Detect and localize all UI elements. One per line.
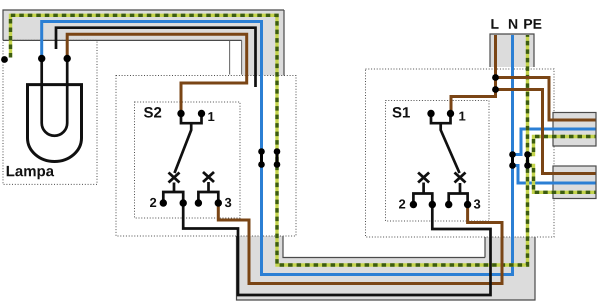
lamp label Lampa [7,166,54,179]
supply label N [509,19,517,29]
socket stub channel 1 right side [553,113,596,147]
S1 terminal label 3 [474,199,481,208]
lamp bulb outline [28,85,82,162]
switch S2 label [144,107,161,118]
switch box S2 outer dashed outline [116,76,296,237]
wire traveller black: S2 terminal 2 to S1 terminal 2 [183,203,490,295]
wire switched live brown: S2 terminal 1 to lamp [67,34,247,113]
wire L brown branch to stub1 [496,78,596,121]
PE termination dot on lamp box [1,56,8,63]
wire spare black in top channel [56,28,256,87]
lamp box dashed outline [3,40,97,184]
terminal block on N wire in S1 area [509,151,516,169]
junction dots on L wire [492,74,499,93]
switch S2 symbol [160,110,222,207]
S1 terminal label 1 [459,112,465,121]
wire PE branch to stub2 [528,166,596,193]
S2 terminal label 2 [150,198,156,207]
terminal block on N wire in S2 area [258,148,265,168]
wire L brown branch to stub2 [496,90,596,174]
wire N blue branch to stub1 [513,129,596,155]
conduit: L N PE supply channel top right [490,34,534,67]
lamp terminal node dots [38,55,71,62]
switch box S1 outer dashed outline [366,69,555,237]
wire traveller brown: S2 terminal 3 to S1 terminal 3 [218,203,502,284]
conduit: top horizontal channel [3,10,284,41]
switch S1 label [392,107,410,118]
socket stub channel 2 right side [553,166,596,199]
conduit: drop channel above S2 box [230,10,284,76]
supply label PE [524,19,541,29]
wire PE green-yellow: lamp area to bottom channel to supply [11,15,528,265]
wire N blue branch to stub2 [513,166,596,184]
S2 terminal label 3 [225,198,232,207]
switch S1 inner dashed outline [386,101,490,222]
terminal block on PE wire in S1 area [524,151,531,169]
switch S1 symbol [410,110,472,208]
terminal block on PE wire in S2 area [274,148,281,168]
switch S2 inner dashed outline [135,102,241,218]
S2 terminal label 1 [208,112,214,121]
S1 terminal label 2 [399,199,405,208]
conduit: bottom horizontal channel with drops below S2 and S1 [237,236,536,300]
wire PE branch to stub1 [528,137,596,155]
wire L brown: supply down to S1 terminal 1 [451,35,496,114]
wire N blue: lamp to bottom channel to supply [42,22,513,275]
lamp leads and filament loop [42,59,67,136]
supply label L [491,19,498,29]
